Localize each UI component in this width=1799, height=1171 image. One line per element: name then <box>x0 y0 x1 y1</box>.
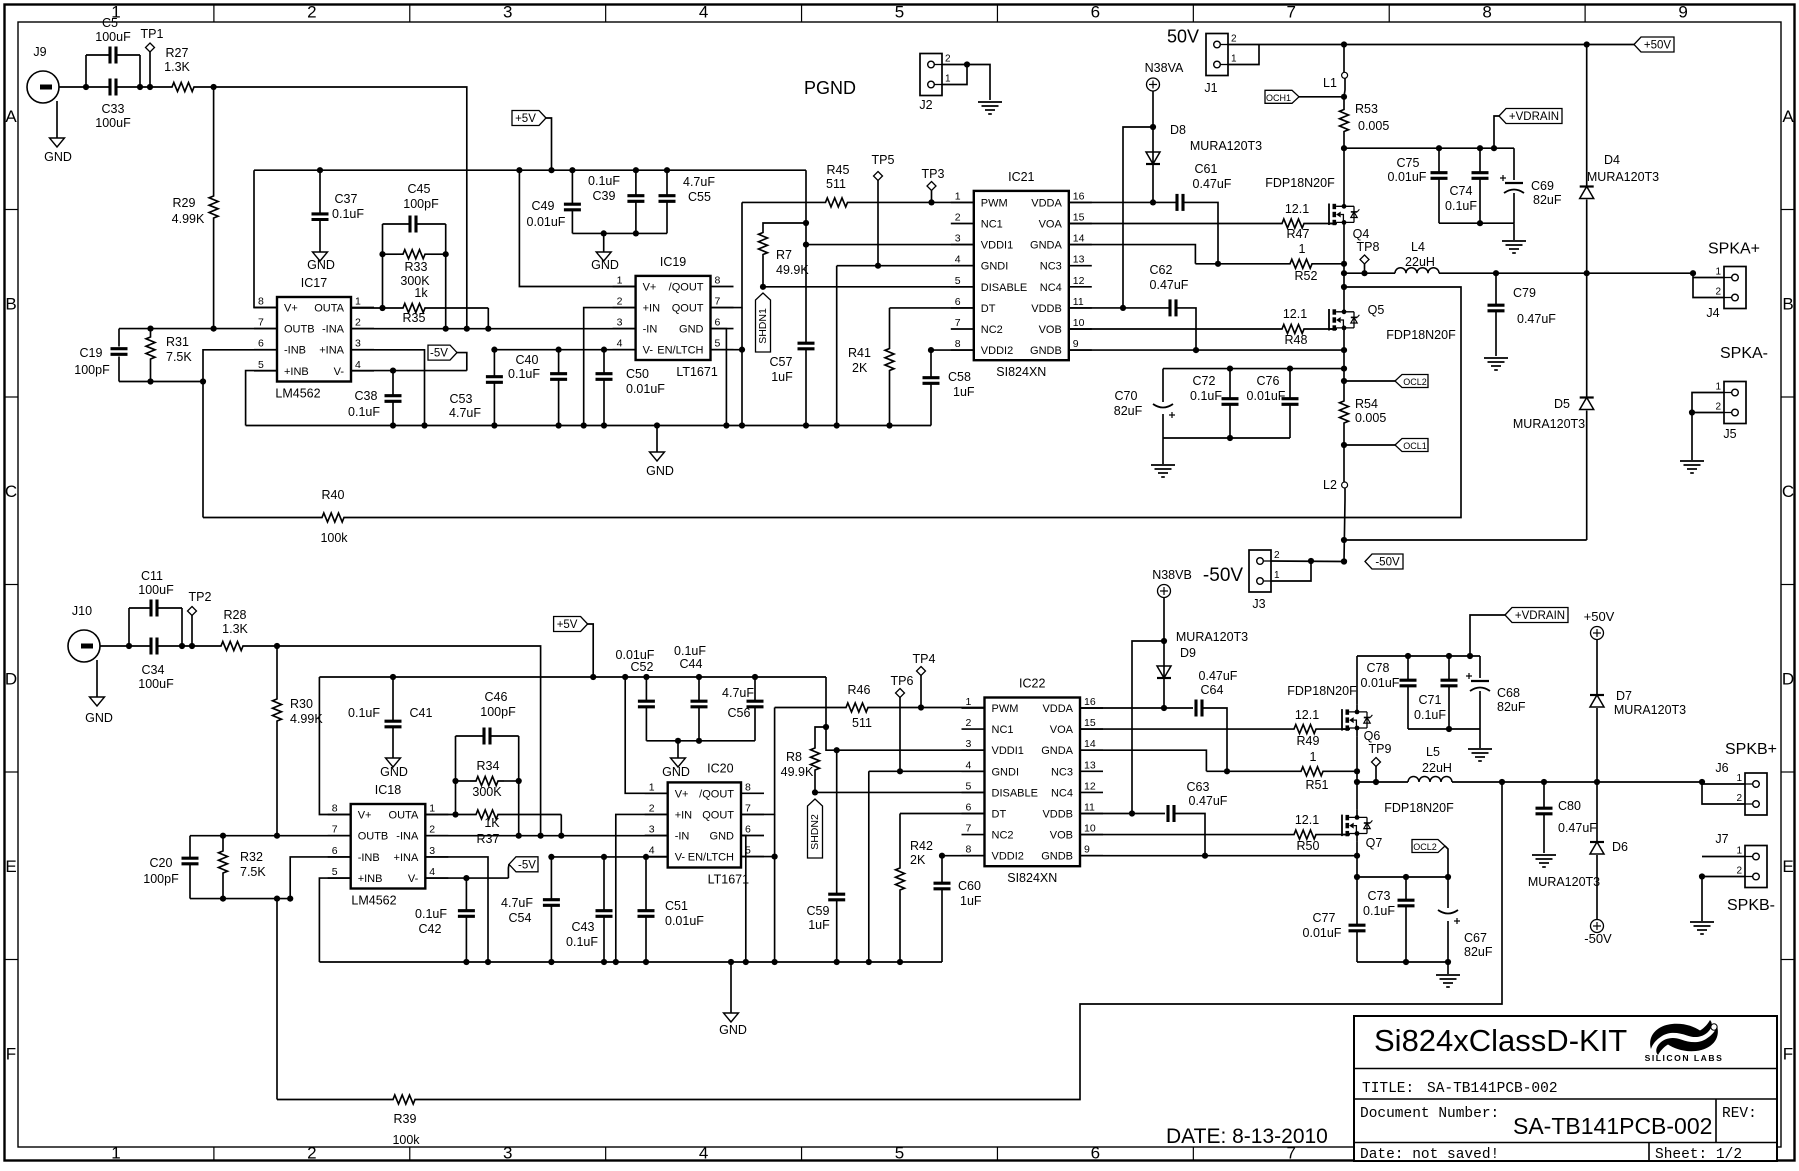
resistor R35 1k <box>351 304 491 332</box>
capacitor C38 0.1uF <box>348 371 401 429</box>
ground at C41 <box>380 758 408 779</box>
svg-text:4: 4 <box>355 359 361 371</box>
svg-text:0.1uF: 0.1uF <box>674 644 706 658</box>
svg-text:R52: R52 <box>1295 269 1318 283</box>
wire -INA row to IC19 -IN <box>351 326 636 332</box>
svg-text:5: 5 <box>332 866 338 878</box>
svg-text:82uF: 82uF <box>1464 945 1493 959</box>
svg-text:0.1uF: 0.1uF <box>566 935 598 949</box>
wire J2 pin1 tie <box>942 65 967 85</box>
svg-text:OCH1: OCH1 <box>1266 93 1291 103</box>
svg-text:3: 3 <box>617 317 623 329</box>
svg-text:IC22: IC22 <box>1019 677 1045 691</box>
wire C34 to R28 <box>182 645 215 647</box>
connector J1 <box>1204 34 1237 96</box>
svg-text:D7: D7 <box>1616 689 1632 703</box>
title block Date row <box>1360 1147 1499 1163</box>
svg-text:1: 1 <box>1736 773 1742 784</box>
svg-text:C20: C20 <box>150 856 173 870</box>
text SPKA- <box>1720 345 1768 362</box>
svg-text:C62: C62 <box>1150 263 1173 277</box>
svg-text:C74: C74 <box>1450 184 1473 198</box>
test point TP8 <box>1357 240 1380 276</box>
inductor jumper L2 <box>1323 478 1348 492</box>
capacitor C67 82uF <box>1438 877 1493 962</box>
capacitor C37 0.1uF <box>312 170 365 252</box>
svg-text:SPKA+: SPKA+ <box>1708 241 1760 258</box>
svg-text:J7: J7 <box>1715 832 1728 846</box>
wire GNDA B to R51 row <box>1080 750 1206 771</box>
svg-text:R35: R35 <box>403 311 426 325</box>
net +50V (D7) <box>1584 609 1615 640</box>
svg-text:R54: R54 <box>1355 397 1378 411</box>
svg-text:V+: V+ <box>643 282 657 294</box>
text -50V (J3) <box>1203 565 1243 586</box>
power ground at C69 <box>1502 223 1526 253</box>
svg-text:3: 3 <box>503 1144 512 1163</box>
wire J7 pin1 stub <box>1702 856 1745 858</box>
svg-text:C: C <box>5 482 17 501</box>
svg-text:C37: C37 <box>335 192 358 206</box>
wire lower bank B top <box>1357 874 1451 880</box>
connector J10 (BNC input B) <box>68 604 100 662</box>
resistor R33 300K <box>379 250 448 300</box>
capacitor C74 0.1uF <box>1445 148 1488 223</box>
Silicon Labs logo <box>1645 1020 1724 1063</box>
svg-text:0.1uF: 0.1uF <box>588 174 620 188</box>
svg-text:/QOUT: /QOUT <box>669 282 704 294</box>
wire Q7 source down B <box>1354 842 1360 881</box>
svg-text:0.1uF: 0.1uF <box>508 367 540 381</box>
svg-text:2K: 2K <box>852 361 868 375</box>
svg-text:12: 12 <box>1084 780 1096 792</box>
test point TP6 <box>891 674 914 774</box>
svg-text:6: 6 <box>258 338 264 350</box>
svg-text:GNDI: GNDI <box>992 766 1020 778</box>
svg-text:1: 1 <box>1274 570 1280 581</box>
svg-text:7: 7 <box>1287 3 1296 22</box>
svg-text:C75: C75 <box>1397 156 1420 170</box>
svg-text:7: 7 <box>715 296 721 308</box>
svg-text:14: 14 <box>1084 738 1096 750</box>
svg-text:Si824xClassD-KIT: Si824xClassD-KIT <box>1374 1023 1627 1058</box>
capacitor C60 1uF <box>934 856 982 962</box>
wire J3 pin1 tie <box>1271 561 1311 581</box>
wire switch node B to L5 <box>1357 781 1408 783</box>
svg-text:NC3: NC3 <box>1040 261 1062 273</box>
net flag OCH1 <box>1265 90 1344 103</box>
svg-text:0.47uF: 0.47uF <box>1193 177 1232 191</box>
svg-text:SILICON LABS: SILICON LABS <box>1645 1053 1724 1063</box>
svg-text:7: 7 <box>966 823 972 835</box>
svg-text:0.01uF: 0.01uF <box>527 215 566 229</box>
svg-text:1.3K: 1.3K <box>164 60 190 74</box>
svg-text:R8: R8 <box>786 750 802 764</box>
svg-text:R49: R49 <box>1297 734 1320 748</box>
transistor Q7 FDP18N20F <box>1342 801 1454 850</box>
svg-text:2: 2 <box>1231 34 1237 45</box>
svg-text:OCL2: OCL2 <box>1403 377 1427 387</box>
svg-text:0.47uF: 0.47uF <box>1150 278 1189 292</box>
capacitor C57 1uF <box>770 170 815 425</box>
svg-text:VOA: VOA <box>1039 219 1063 231</box>
svg-text:C49: C49 <box>532 199 555 213</box>
resistor R37 1K <box>425 810 564 846</box>
wire OCL bank top <box>1163 366 1344 372</box>
svg-text:C38: C38 <box>355 389 378 403</box>
power ground at C70 <box>1151 438 1175 477</box>
net flag OCL2 (B) <box>1412 840 1448 878</box>
svg-text:9: 9 <box>1084 844 1090 856</box>
svg-text:7: 7 <box>258 317 264 329</box>
wire VDRAIN bank bottom <box>1439 220 1514 226</box>
svg-text:C: C <box>1782 482 1794 501</box>
wire -INA row B to IC20 -IN <box>425 833 667 839</box>
wire R53 to Q4 drain <box>1343 148 1345 198</box>
resistor R45 511 <box>742 163 974 207</box>
svg-text:R48: R48 <box>1285 333 1308 347</box>
svg-text:R30: R30 <box>290 697 313 711</box>
wire -INB drop B <box>290 857 351 899</box>
wire J5 pins to ground <box>1689 393 1724 461</box>
wire V+ IC18 to rail B <box>319 677 350 815</box>
svg-text:2: 2 <box>355 317 361 329</box>
svg-text:R33: R33 <box>405 260 428 274</box>
inductor L5 22uH <box>1408 745 1452 782</box>
svg-text:MURA120T3: MURA120T3 <box>1614 703 1686 717</box>
svg-text:16: 16 <box>1073 190 1085 202</box>
svg-text:C19: C19 <box>80 346 103 360</box>
svg-text:3: 3 <box>955 233 961 245</box>
svg-text:B: B <box>5 294 16 313</box>
svg-text:C58: C58 <box>948 370 971 384</box>
svg-text:L4: L4 <box>1411 240 1425 254</box>
svg-text:4.7uF: 4.7uF <box>722 686 754 700</box>
svg-text:+VDRAIN: +VDRAIN <box>1509 111 1559 123</box>
svg-text:R29: R29 <box>173 196 196 210</box>
capacitor C73 0.1uF <box>1363 877 1414 962</box>
svg-text:C45: C45 <box>408 182 431 196</box>
svg-text:J2: J2 <box>919 98 932 112</box>
svg-text:GND: GND <box>710 831 735 843</box>
wire V- row IC17 <box>351 368 467 374</box>
svg-text:VDDI1: VDDI1 <box>981 240 1013 252</box>
wire Q5 source down <box>1341 336 1347 372</box>
svg-text:1: 1 <box>1310 750 1317 764</box>
svg-text:6: 6 <box>745 824 751 836</box>
svg-text:2: 2 <box>1736 866 1742 877</box>
svg-text:22uH: 22uH <box>1422 761 1452 775</box>
svg-text:2: 2 <box>649 802 655 814</box>
svg-text:C46: C46 <box>485 690 508 704</box>
wire +INA row B to bus <box>425 857 491 965</box>
wire IC19 GND to bus <box>711 329 727 426</box>
svg-text:VOA: VOA <box>1050 724 1074 736</box>
svg-text:GND: GND <box>307 258 335 272</box>
svg-text:V+: V+ <box>675 788 689 800</box>
svg-text:VDDB: VDDB <box>1031 303 1062 315</box>
test point TP4 <box>913 652 936 708</box>
wire +IN drop B to bus <box>616 814 668 962</box>
svg-text:VDDA: VDDA <box>1031 197 1062 209</box>
svg-text:100pF: 100pF <box>74 363 110 377</box>
net flag SHDN1 <box>756 293 771 352</box>
title block Sheet row <box>1655 1147 1742 1163</box>
svg-text:1.3K: 1.3K <box>222 622 248 636</box>
svg-text:/QOUT: /QOUT <box>699 788 734 800</box>
net N38VB <box>1152 568 1192 711</box>
capacitor C62 0.47uF <box>1069 263 1199 353</box>
svg-text:0.1uF: 0.1uF <box>1363 904 1395 918</box>
svg-text:9: 9 <box>1678 3 1687 22</box>
svg-text:0.01uF: 0.01uF <box>1247 389 1286 403</box>
capacitor C55 4.7uF <box>659 170 716 233</box>
power ground at C79 <box>1484 358 1508 370</box>
capacitor C41 0.1uF <box>348 677 432 758</box>
power flag +50V <box>1634 37 1674 52</box>
resistor R39 100k <box>277 779 1505 1147</box>
svg-text:R37: R37 <box>477 832 500 846</box>
capacitor C78 0.01uF <box>1361 656 1417 729</box>
svg-text:4.7uF: 4.7uF <box>449 406 481 420</box>
capacitor C56 4.7uF <box>722 677 763 741</box>
svg-text:C43: C43 <box>572 920 595 934</box>
wire J2 pin2 to ground <box>942 61 990 100</box>
wire QOUT riser lower B <box>772 814 778 962</box>
wire DISABLE row B <box>815 791 985 793</box>
svg-text:EN/LTCH: EN/LTCH <box>688 852 734 864</box>
svg-text:MURA120T3: MURA120T3 <box>1528 875 1600 889</box>
power flag +5V (A) <box>512 111 552 171</box>
svg-text:IC20: IC20 <box>707 761 733 775</box>
svg-text:14: 14 <box>1073 233 1085 245</box>
wire DISABLE row <box>763 286 974 288</box>
svg-text:0.1uF: 0.1uF <box>1445 199 1477 213</box>
svg-text:C79: C79 <box>1513 286 1536 300</box>
svg-text:1K: 1K <box>484 816 500 830</box>
svg-text:C41: C41 <box>410 706 433 720</box>
svg-text:MURA120T3: MURA120T3 <box>1587 170 1659 184</box>
svg-text:6: 6 <box>1091 3 1100 22</box>
net -50V (D6) <box>1584 920 1612 947</box>
inductor L4 22uH <box>1395 240 1439 273</box>
svg-text:100pF: 100pF <box>480 705 516 719</box>
svg-text:4.7uF: 4.7uF <box>501 896 533 910</box>
svg-text:-INA: -INA <box>322 324 345 336</box>
capacitor C63 0.47uF <box>1080 780 1228 859</box>
svg-text:15: 15 <box>1073 212 1085 224</box>
svg-text:FDP18N20F: FDP18N20F <box>1287 684 1357 698</box>
svg-text:82uF: 82uF <box>1533 193 1562 207</box>
power flag -5V (B) <box>508 857 538 878</box>
title block REV label <box>1722 1106 1757 1122</box>
svg-text:V+: V+ <box>284 303 298 315</box>
capacitor C52 0.01uF <box>616 648 655 741</box>
driver IC22 SI824XN <box>962 677 1104 886</box>
wire J7 pin2 to ground <box>1699 873 1745 921</box>
capacitor C79 0.47uF <box>1488 273 1557 356</box>
svg-text:C71: C71 <box>1419 693 1442 707</box>
svg-text:1: 1 <box>966 696 972 708</box>
svg-text:J6: J6 <box>1715 761 1728 775</box>
svg-text:7.5K: 7.5K <box>166 350 192 364</box>
capacitor C45 100pF <box>383 182 446 233</box>
wire DT row <box>890 307 974 309</box>
svg-text:+50V: +50V <box>1584 609 1615 624</box>
capacitor C50 0.01uF <box>596 347 666 426</box>
svg-text:1uF: 1uF <box>960 894 982 908</box>
resistor R42 2K <box>896 814 933 963</box>
svg-text:8: 8 <box>258 296 264 308</box>
wire C20/R32 bottom row B <box>190 896 293 902</box>
wire J3 pin2 to -50V flag <box>1271 558 1347 565</box>
svg-text:1: 1 <box>1736 846 1742 857</box>
svg-text:GND: GND <box>591 258 619 272</box>
connector J5 <box>1715 382 1746 442</box>
ground at cap trio <box>591 233 619 272</box>
svg-text:GND: GND <box>719 1023 747 1037</box>
svg-text:Q4: Q4 <box>1353 227 1370 241</box>
svg-text:+5V: +5V <box>515 113 536 125</box>
svg-text:0.005: 0.005 <box>1358 119 1389 133</box>
svg-text:OCL1: OCL1 <box>1403 441 1427 451</box>
wire QOUT riser B <box>741 708 775 815</box>
svg-text:C61: C61 <box>1195 162 1218 176</box>
svg-text:N38VB: N38VB <box>1152 568 1192 582</box>
resistor R8 49.9K <box>781 724 829 796</box>
wire GNDI drop <box>836 266 838 426</box>
svg-text:C76: C76 <box>1257 374 1280 388</box>
wire lower bank B bottom <box>1357 959 1451 965</box>
svg-text:GND: GND <box>679 324 704 336</box>
capacitor C59 1uF <box>807 750 846 962</box>
wire switch node to L4 <box>1344 272 1395 274</box>
power flag -5V (A) <box>428 345 467 371</box>
svg-text:2: 2 <box>1274 550 1280 561</box>
svg-text:49.9K: 49.9K <box>781 765 814 779</box>
svg-text:NC4: NC4 <box>1040 282 1062 294</box>
svg-text:F: F <box>6 1044 16 1063</box>
connector J9 (BNC input A) <box>27 45 59 103</box>
svg-text:C50: C50 <box>626 367 649 381</box>
svg-text:Q7: Q7 <box>1366 836 1383 850</box>
driver IC21 SI824XN <box>951 170 1092 379</box>
svg-text:-50V: -50V <box>1203 565 1243 586</box>
svg-text:SPKA-: SPKA- <box>1720 345 1768 362</box>
resistor R28 1.3K <box>215 608 249 651</box>
svg-text:13: 13 <box>1084 759 1096 771</box>
svg-text:C33: C33 <box>102 102 125 116</box>
svg-text:GNDB: GNDB <box>1030 345 1062 357</box>
capacitor C39 0.1uF <box>588 170 644 233</box>
wire Q6 source to switch node B <box>1354 736 1360 810</box>
resistor R48 12.1 <box>1069 307 1337 347</box>
resistor R52 1 <box>1195 242 1344 283</box>
svg-text:+INB: +INB <box>358 873 383 885</box>
ground at J10 <box>85 660 113 725</box>
svg-text:OUTA: OUTA <box>389 810 419 822</box>
svg-text:C34: C34 <box>142 663 165 677</box>
capacitor C64 0.47uF <box>1080 669 1238 774</box>
wire VDDI2 row B <box>939 853 985 859</box>
op-amp IC18 LM4562 <box>328 783 449 908</box>
wire +INA to bus <box>351 350 428 429</box>
wire N38VB branch to VDDB <box>1129 641 1164 817</box>
svg-text:E: E <box>5 857 16 876</box>
title block Document Number label <box>1360 1106 1499 1122</box>
svg-text:NC4: NC4 <box>1051 787 1073 799</box>
svg-text:13: 13 <box>1073 254 1085 266</box>
wire J5 pin2 stub <box>1692 412 1724 414</box>
net flag OCL1 <box>1344 439 1428 452</box>
svg-text:V-: V- <box>408 873 419 885</box>
wire GNDI drop B <box>868 771 870 962</box>
svg-text:-INB: -INB <box>358 852 380 864</box>
wire +IN drop to bus <box>584 308 636 426</box>
svg-text:4: 4 <box>955 254 961 266</box>
capacitor C49 0.01uF <box>527 170 581 233</box>
svg-text:4.99K: 4.99K <box>172 212 205 226</box>
svg-text:VOB: VOB <box>1050 830 1073 842</box>
svg-text:R42: R42 <box>910 839 933 853</box>
svg-text:C64: C64 <box>1201 683 1224 697</box>
wire J10 to C34 <box>100 645 129 647</box>
capacitor C80 0.47uF <box>1536 782 1598 853</box>
svg-text:0.1uF: 0.1uF <box>415 907 447 921</box>
svg-text:R32: R32 <box>240 850 263 864</box>
svg-text:0.01uF: 0.01uF <box>1388 170 1427 184</box>
svg-text:PWM: PWM <box>992 703 1019 715</box>
svg-text:TP6: TP6 <box>891 674 914 688</box>
svg-text:82uF: 82uF <box>1114 404 1143 418</box>
svg-text:J3: J3 <box>1252 597 1265 611</box>
resistor R49 12.1 <box>1080 708 1350 748</box>
svg-text:L2: L2 <box>1323 478 1337 492</box>
svg-text:9: 9 <box>1073 338 1079 350</box>
svg-text:L5: L5 <box>1426 745 1440 759</box>
svg-text:GNDI: GNDI <box>981 261 1009 273</box>
svg-text:+IN: +IN <box>675 809 692 821</box>
svg-text:0.005: 0.005 <box>1355 411 1386 425</box>
svg-text:FDP18N20F: FDP18N20F <box>1265 176 1335 190</box>
svg-text:C69: C69 <box>1531 179 1554 193</box>
svg-text:J5: J5 <box>1723 427 1736 441</box>
svg-text:IC18: IC18 <box>375 783 401 797</box>
svg-text:TP3: TP3 <box>922 167 945 181</box>
wire R27 to node, input run to column 3 <box>200 84 467 329</box>
svg-text:TP2: TP2 <box>189 590 212 604</box>
svg-text:VDDB: VDDB <box>1042 809 1073 821</box>
title text Si824xClassD-KIT <box>1374 1023 1627 1058</box>
svg-text:0.01uF: 0.01uF <box>665 914 704 928</box>
svg-text:N38VA: N38VA <box>1145 61 1184 75</box>
svg-text:VDDA: VDDA <box>1042 703 1073 715</box>
ground at J9 <box>44 101 72 164</box>
svg-text:+VDRAIN: +VDRAIN <box>1515 610 1565 622</box>
svg-text:12.1: 12.1 <box>1283 307 1307 321</box>
comparator IC19 LT1671 <box>613 255 734 379</box>
svg-text:6: 6 <box>332 845 338 857</box>
svg-text:6: 6 <box>1091 1144 1100 1163</box>
svg-text:511: 511 <box>826 177 846 191</box>
svg-text:2: 2 <box>617 296 623 308</box>
resistor R53 0.005 <box>1340 97 1390 151</box>
svg-text:4.7uF: 4.7uF <box>683 175 715 189</box>
svg-text:-50V: -50V <box>1584 931 1612 946</box>
wire +5V rail A <box>254 167 806 173</box>
svg-text:IC17: IC17 <box>301 276 327 290</box>
op-amp IC17 LM4562 <box>254 276 374 401</box>
